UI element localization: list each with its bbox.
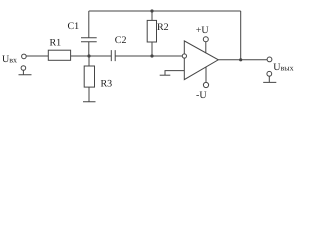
capacitor C2 bbox=[111, 50, 115, 61]
svg-text:R2: R2 bbox=[157, 22, 169, 33]
+U power terminal bbox=[205, 42, 207, 54]
input ground terminal bbox=[21, 66, 26, 71]
op-amp U1 bbox=[184, 41, 218, 80]
node R2 bottom junction bbox=[150, 54, 153, 57]
output terminal Uvyx bbox=[267, 57, 272, 62]
wire feedback drop bbox=[240, 11, 242, 60]
ground non-inverting bbox=[160, 74, 171, 76]
inverting input circle bbox=[182, 54, 186, 58]
wire C2 to op-amp bbox=[115, 55, 182, 57]
resistor R1 bbox=[48, 50, 70, 60]
svg-text:Uвх: Uвх bbox=[2, 54, 17, 65]
wire output bbox=[218, 59, 267, 61]
node junction A bbox=[87, 54, 90, 57]
resistor R2 bbox=[151, 11, 153, 56]
-U power terminal bbox=[205, 67, 207, 82]
input ground bbox=[19, 70, 32, 74]
wire input to R1 bbox=[26, 55, 48, 57]
capacitor C1 bbox=[81, 11, 97, 56]
svg-text:R3: R3 bbox=[101, 79, 113, 90]
svg-text:-U: -U bbox=[196, 90, 207, 101]
svg-text:+U: +U bbox=[196, 25, 210, 36]
svg-text:C1: C1 bbox=[68, 21, 80, 32]
resistor R3 bbox=[88, 56, 90, 66]
wire feedback top line bbox=[89, 10, 241, 12]
ground under R3 bbox=[83, 87, 96, 102]
output ground bbox=[263, 76, 276, 82]
svg-text:R1: R1 bbox=[50, 38, 62, 49]
svg-text:C2: C2 bbox=[115, 35, 127, 46]
node output junction bbox=[239, 58, 242, 61]
input terminal Uvx bbox=[22, 54, 27, 59]
output ground terminal bbox=[267, 71, 272, 76]
svg-text:Uвых: Uвых bbox=[273, 62, 293, 73]
wire non-inverting input bbox=[165, 71, 184, 76]
wire R1 to C2 bbox=[71, 55, 112, 57]
node R2 top junction bbox=[150, 9, 153, 12]
